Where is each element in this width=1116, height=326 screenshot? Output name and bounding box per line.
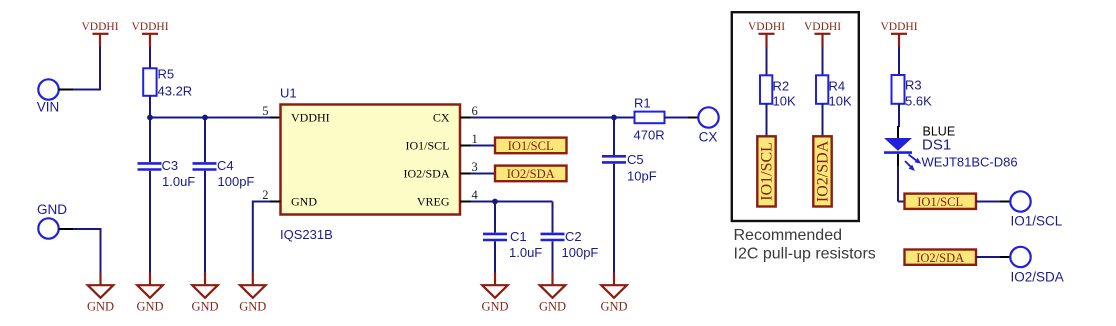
svg-text:WEJT81BC-D86: WEJT81BC-D86 — [922, 155, 1018, 170]
svg-text:GND: GND — [539, 300, 566, 314]
svg-text:R1: R1 — [634, 96, 651, 111]
svg-text:6: 6 — [472, 104, 478, 118]
svg-text:C1: C1 — [510, 229, 527, 244]
svg-text:5: 5 — [262, 104, 268, 118]
svg-text:GND: GND — [291, 195, 317, 209]
svg-text:5.6K: 5.6K — [905, 94, 932, 109]
svg-text:GND: GND — [600, 300, 627, 314]
svg-text:C4: C4 — [217, 158, 234, 173]
svg-text:R2: R2 — [773, 79, 790, 94]
svg-text:VDDHI: VDDHI — [748, 21, 785, 33]
svg-text:IO1/SCL: IO1/SCL — [405, 139, 449, 153]
svg-text:GND: GND — [37, 202, 67, 217]
svg-text:IO1/SCL: IO1/SCL — [759, 142, 776, 201]
svg-text:IO2/SDA: IO2/SDA — [507, 167, 555, 181]
svg-text:I2C pull-up resistors: I2C pull-up resistors — [734, 246, 876, 263]
svg-text:IO1/SCL: IO1/SCL — [917, 195, 963, 209]
svg-text:C3: C3 — [162, 158, 179, 173]
svg-text:470R: 470R — [634, 128, 665, 143]
svg-text:10K: 10K — [829, 94, 852, 109]
svg-text:DS1: DS1 — [922, 137, 951, 154]
svg-text:C5: C5 — [627, 152, 644, 167]
svg-text:3: 3 — [472, 160, 478, 174]
svg-text:R4: R4 — [829, 79, 846, 94]
svg-text:VDDHI: VDDHI — [880, 21, 917, 33]
svg-text:GND: GND — [87, 300, 114, 314]
svg-text:GND: GND — [239, 300, 266, 314]
svg-text:C2: C2 — [565, 229, 582, 244]
svg-text:U1: U1 — [280, 86, 297, 101]
svg-text:VIN: VIN — [37, 100, 60, 115]
svg-text:GND: GND — [136, 300, 163, 314]
svg-text:IO2/SDA: IO2/SDA — [403, 167, 449, 181]
svg-text:2: 2 — [262, 188, 268, 202]
svg-text:GND: GND — [191, 300, 218, 314]
svg-text:VDDHI: VDDHI — [81, 21, 118, 33]
svg-text:CX: CX — [699, 130, 718, 145]
svg-text:4: 4 — [472, 188, 479, 202]
svg-text:R5: R5 — [158, 67, 175, 82]
svg-text:100pF: 100pF — [218, 174, 255, 189]
svg-text:1.0uF: 1.0uF — [162, 174, 195, 189]
svg-text:1: 1 — [472, 132, 478, 146]
svg-text:VREG: VREG — [417, 195, 450, 209]
svg-text:VDDHI: VDDHI — [291, 111, 330, 125]
svg-text:1.0uF: 1.0uF — [509, 245, 542, 260]
svg-text:IO2/SDA: IO2/SDA — [1011, 270, 1064, 285]
svg-text:IO1/SCL: IO1/SCL — [508, 139, 554, 153]
svg-text:IO2/SDA: IO2/SDA — [815, 140, 832, 202]
svg-text:VDDHI: VDDHI — [131, 21, 168, 33]
svg-text:100pF: 100pF — [562, 245, 599, 260]
svg-text:IQS231B: IQS231B — [280, 227, 333, 242]
svg-text:GND: GND — [481, 300, 508, 314]
svg-text:IO2/SDA: IO2/SDA — [916, 251, 964, 265]
svg-text:VDDHI: VDDHI — [804, 21, 841, 33]
svg-text:R3: R3 — [905, 78, 922, 93]
svg-text:10pF: 10pF — [627, 169, 657, 184]
svg-text:IO1/SCL: IO1/SCL — [1011, 214, 1063, 229]
svg-text:43.2R: 43.2R — [158, 84, 193, 99]
svg-text:Recommended: Recommended — [734, 227, 843, 244]
svg-text:CX: CX — [433, 111, 450, 125]
svg-text:10K: 10K — [773, 94, 796, 109]
